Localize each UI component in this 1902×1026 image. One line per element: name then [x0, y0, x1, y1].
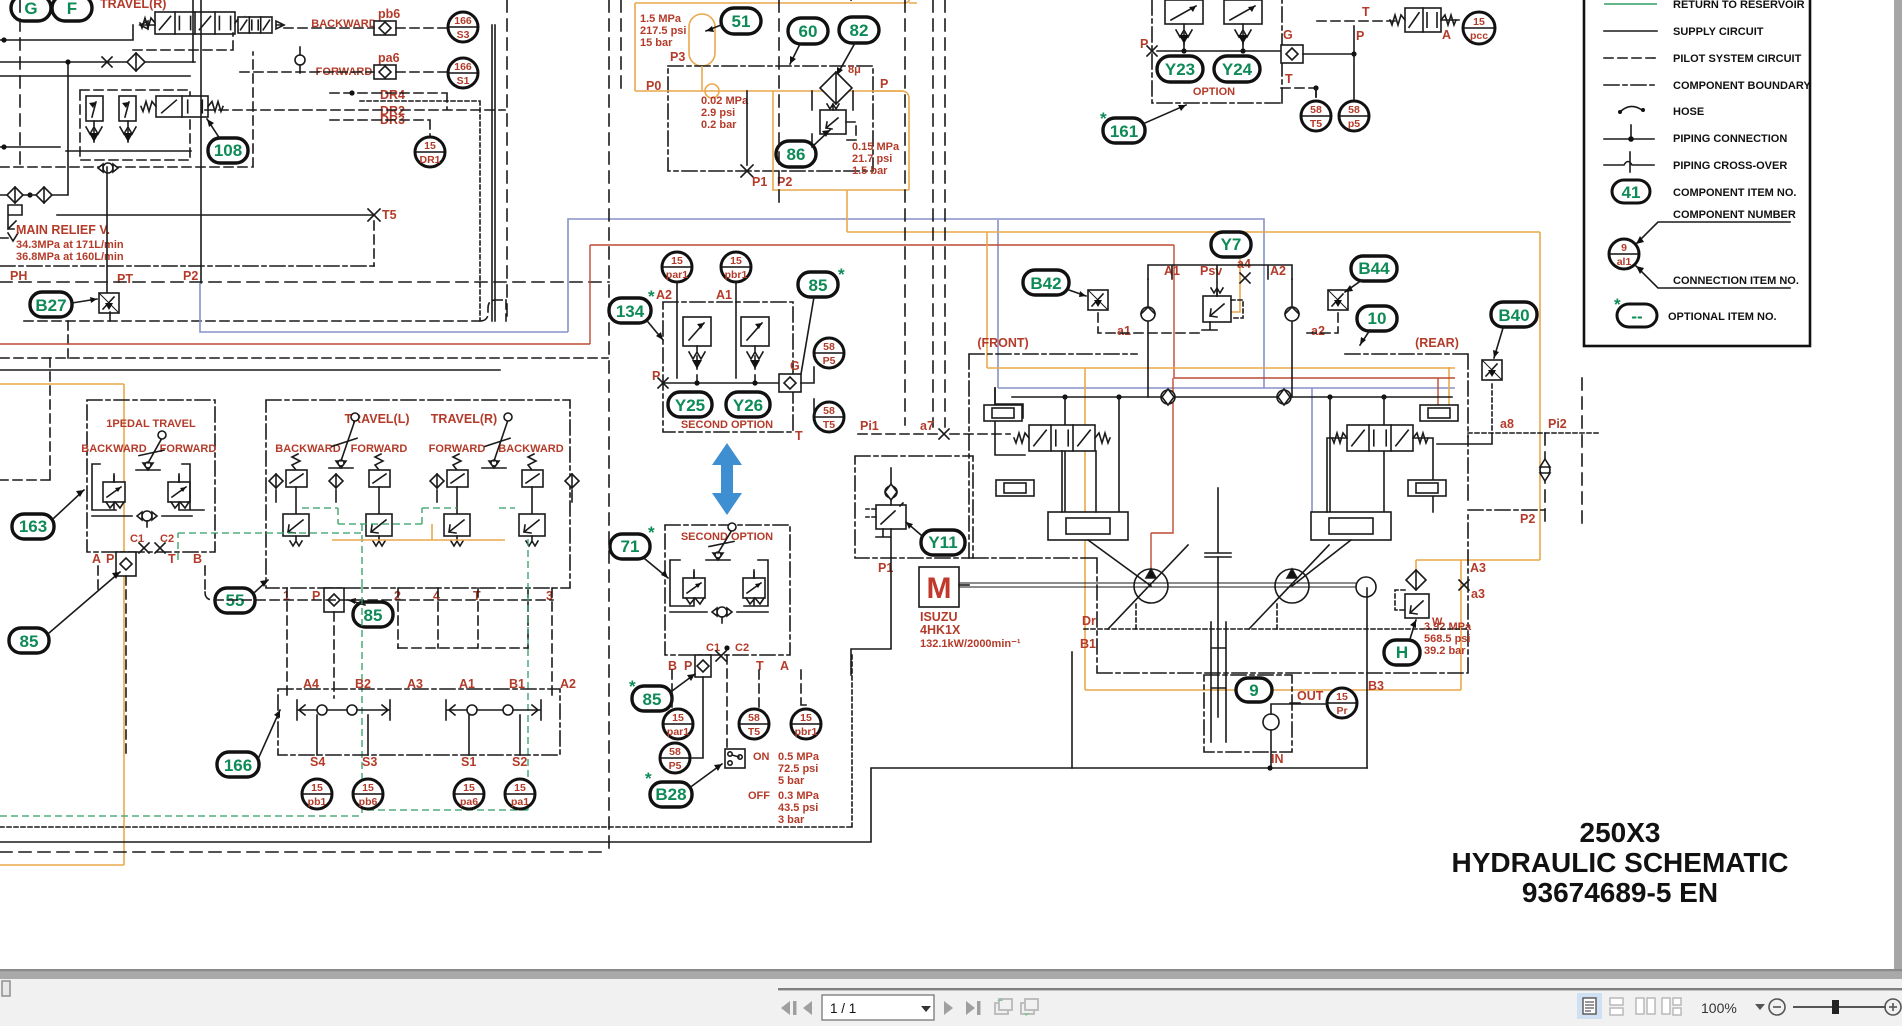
- diamond on P1: [885, 484, 897, 500]
- travel R lever: [482, 413, 512, 468]
- pilot reducer right: [743, 570, 765, 604]
- component item no oval H: [1384, 640, 1420, 665]
- check valve rear: [1277, 389, 1291, 405]
- svg-text:*: *: [648, 523, 655, 542]
- nav last button: [966, 1001, 981, 1015]
- long dashed vertical x609: [608, 0, 610, 855]
- svg-text:0.2 bar: 0.2 bar: [701, 119, 737, 131]
- legend: hose: [1620, 106, 1642, 112]
- svg-text:P: P: [106, 552, 114, 566]
- legend: supply circuit: [1604, 30, 1657, 32]
- component item no oval 9: [1236, 678, 1272, 702]
- solenoid oval Y7: [1211, 232, 1251, 257]
- solenoid B44 symbol: [1328, 290, 1348, 310]
- svg-text:P5: P5: [823, 355, 836, 367]
- connection circle 15/pa6: [454, 779, 484, 809]
- shaft center vertical: [1217, 557, 1219, 717]
- svg-text:93674689-5 EN: 93674689-5 EN: [1522, 877, 1718, 908]
- svg-text:108: 108: [214, 141, 242, 160]
- check ball symbol above FORWARD: [295, 47, 305, 73]
- svg-text:0.5 MPa: 0.5 MPa: [778, 751, 820, 763]
- solenoid valve Y24: [1224, 0, 1262, 44]
- svg-text:1.5 bar: 1.5 bar: [852, 165, 888, 177]
- svg-text:B42: B42: [1030, 274, 1061, 293]
- svg-text:P2: P2: [1520, 512, 1535, 526]
- svg-text:163: 163: [19, 517, 47, 536]
- svg-text:Y23: Y23: [1165, 60, 1195, 79]
- svg-text:B28: B28: [655, 785, 686, 804]
- svg-text:G: G: [790, 359, 800, 373]
- shuttle internals left: [297, 700, 390, 720]
- svg-text:P: P: [652, 369, 660, 383]
- svg-text:15: 15: [1336, 691, 1348, 703]
- svg-text:41: 41: [1622, 183, 1641, 202]
- component item no oval B40: [1491, 302, 1537, 327]
- orange supply wire left: [0, 383, 124, 385]
- svg-text:ON: ON: [753, 751, 770, 763]
- svg-text:P5: P5: [669, 760, 682, 772]
- svg-text:*: *: [1100, 109, 1107, 128]
- component item no oval 51: [721, 8, 761, 34]
- svg-text:al1: al1: [1617, 256, 1632, 268]
- svg-text:PT: PT: [117, 272, 133, 286]
- connection circle 15/Pr: [1327, 688, 1357, 718]
- pa6 restrictor: [374, 65, 396, 79]
- front servo piping: [995, 388, 1096, 512]
- nav first-page button: [781, 1001, 797, 1015]
- svg-text:P: P: [880, 77, 888, 91]
- svg-text:B: B: [193, 552, 202, 566]
- legend: return to reservoir: [1604, 3, 1657, 5]
- Y25 Y26 pilot valves: [683, 317, 711, 369]
- svg-text:F: F: [67, 0, 77, 18]
- component item no oval B44: [1351, 256, 1397, 281]
- svg-text:S3: S3: [457, 29, 470, 41]
- red drop to front pump: [1151, 378, 1173, 569]
- pilot dashed wire: [133, 33, 233, 50]
- svg-text:CONNECTION ITEM NO.: CONNECTION ITEM NO.: [1673, 275, 1799, 287]
- solenoid oval Y26: [726, 392, 770, 417]
- svg-text:85: 85: [809, 276, 828, 295]
- component item no oval 163: [12, 514, 54, 539]
- wire: [0, 25, 133, 40]
- svg-text:SUPPLY CIRCUIT: SUPPLY CIRCUIT: [1673, 26, 1764, 38]
- svg-text:58: 58: [1310, 104, 1322, 116]
- small pilot valve circle-diamond: [98, 163, 118, 173]
- green wire inside travel block: [302, 508, 457, 524]
- zoom slider: [1793, 1006, 1886, 1008]
- 1pedal travel block boundary: [87, 400, 215, 552]
- component item no oval 10: [1357, 306, 1397, 331]
- check valve: [36, 187, 52, 203]
- svg-text:a3: a3: [1471, 587, 1485, 601]
- dashed vertical x621 short: [620, 0, 622, 90]
- svg-text:58: 58: [1348, 104, 1360, 116]
- pilot filter 82: [820, 72, 852, 104]
- legend: component item no 41: [1612, 180, 1650, 203]
- check valve: [7, 187, 23, 203]
- a8 pilot dashes and B40 drop: [1468, 384, 1598, 433]
- travel pilot reducer 2: [366, 454, 392, 546]
- svg-text:a8: a8: [1500, 417, 1514, 431]
- wires below 108: [0, 147, 191, 151]
- svg-text:58: 58: [669, 746, 681, 758]
- P1 supply line: [851, 468, 891, 675]
- svg-text:Psv: Psv: [1200, 264, 1222, 278]
- toolbar background: [0, 979, 1902, 1026]
- svg-text:Pi1: Pi1: [860, 419, 879, 433]
- svg-text:HYDRAULIC SCHEMATIC: HYDRAULIC SCHEMATIC: [1451, 847, 1788, 878]
- svg-text:250X3: 250X3: [1580, 817, 1661, 848]
- black dashed bus y358: [0, 357, 608, 359]
- svg-text:8μ: 8μ: [848, 64, 861, 76]
- blue pilot wire (straight travel): [200, 219, 1455, 388]
- pb6 restrictor: [374, 21, 396, 35]
- dashed verticals x779 x933 x945: [932, 0, 934, 427]
- component item no oval 85: [798, 272, 838, 297]
- zoom in circle: [1885, 999, 1901, 1015]
- svg-text:T5: T5: [823, 419, 835, 431]
- servo pistons: [1048, 512, 1128, 540]
- PT pressure switch line: [107, 167, 110, 321]
- svg-text:B27: B27: [35, 296, 66, 315]
- svg-text:15: 15: [671, 255, 683, 267]
- svg-text:PIPING CROSS-OVER: PIPING CROSS-OVER: [1673, 160, 1787, 172]
- bottom gray band: [0, 971, 1902, 979]
- svg-text:B1: B1: [1080, 637, 1096, 651]
- blue drop to rear pump: [1311, 388, 1313, 518]
- pilot reducer left: [683, 570, 705, 604]
- Y11 block: [855, 456, 973, 558]
- svg-text:OPTION: OPTION: [1193, 86, 1235, 98]
- svg-text:FORWARD: FORWARD: [351, 443, 408, 455]
- svg-text:P1: P1: [752, 175, 767, 189]
- svg-text:Pr: Pr: [1336, 705, 1347, 717]
- svg-text:pb6: pb6: [378, 7, 400, 21]
- svg-text:58: 58: [823, 405, 835, 417]
- pump case drains dashed: [1136, 603, 1277, 629]
- svg-text:COMPONENT NUMBER: COMPONENT NUMBER: [1673, 209, 1796, 221]
- svg-text:HOSE: HOSE: [1673, 106, 1704, 118]
- pilot filter oval85: [695, 655, 711, 677]
- svg-text:2.9 psi: 2.9 psi: [701, 107, 735, 119]
- legend box: [1584, 0, 1810, 346]
- orange wire to A3: [1415, 560, 1417, 569]
- svg-text:10: 10: [1368, 309, 1387, 328]
- page number box: [822, 995, 934, 1020]
- svg-text:3.92 MPa: 3.92 MPa: [1424, 621, 1472, 633]
- svg-text:P3: P3: [670, 50, 685, 64]
- svg-text:A1: A1: [716, 288, 732, 302]
- connection circle 15/par1: [662, 252, 692, 282]
- pumps: [1108, 545, 1188, 629]
- svg-text:Pi2: Pi2: [1548, 417, 1567, 431]
- svg-text:PH: PH: [10, 269, 27, 283]
- svg-text:1.5 MPa: 1.5 MPa: [640, 13, 682, 25]
- nav next button: [944, 1001, 953, 1015]
- svg-text:IN: IN: [1271, 752, 1284, 766]
- svg-text:166: 166: [224, 756, 252, 775]
- long dashed pilot bus y282: [0, 281, 609, 283]
- pilot gear pump: [1356, 577, 1376, 597]
- pedal lever 163: [136, 431, 166, 470]
- svg-text:A2: A2: [656, 288, 672, 302]
- svg-text:T5: T5: [748, 726, 760, 738]
- orange wire inside travel block: [332, 524, 505, 540]
- top manifold wires: [1148, 265, 1292, 296]
- svg-text:15: 15: [730, 255, 742, 267]
- svg-text:B40: B40: [1498, 306, 1529, 325]
- legend: pilot system circuit: [1604, 57, 1657, 59]
- left dashed stubs: [0, 321, 68, 480]
- svg-text:9: 9: [1621, 242, 1627, 254]
- small page corner icon left: [2, 981, 10, 996]
- svg-text:*: *: [838, 265, 845, 284]
- svg-text:ISUZU: ISUZU: [920, 610, 958, 624]
- component item no oval 85 (163): [9, 628, 49, 653]
- travel LR block boundary: [266, 400, 570, 588]
- svg-text:Y11: Y11: [928, 533, 957, 552]
- svg-text:0.15 MPa: 0.15 MPa: [852, 141, 900, 153]
- svg-text:15: 15: [514, 782, 526, 794]
- svg-text:A1: A1: [459, 677, 475, 691]
- wire with check cross: [0, 62, 195, 151]
- svg-text:M: M: [927, 572, 952, 605]
- svg-text:9: 9: [1249, 681, 1258, 700]
- orange Psv feed: [1231, 232, 1240, 312]
- suction circle: [1263, 714, 1279, 730]
- svg-text:4: 4: [433, 589, 440, 603]
- solenoid oval Y25: [668, 392, 712, 417]
- svg-text:C2: C2: [160, 533, 174, 545]
- gray line down from P1: [746, 91, 748, 165]
- svg-text:Dr: Dr: [1082, 614, 1096, 628]
- pilot filter G: [779, 374, 801, 392]
- Pi2 riser and P2 boundary: [1545, 378, 1582, 523]
- component item no oval B42: [1023, 270, 1069, 295]
- pcc valve: [1390, 8, 1456, 32]
- svg-text:15: 15: [1473, 16, 1485, 28]
- component item no oval B28: [650, 782, 692, 807]
- svg-text:161: 161: [1110, 122, 1138, 141]
- bottom orange corner to left: [0, 864, 124, 866]
- supply manifold line y397: [1012, 396, 1452, 398]
- svg-text:TRAVEL(R): TRAVEL(R): [100, 0, 166, 11]
- svg-text:0.3 MPa: 0.3 MPa: [778, 790, 820, 802]
- solenoid B42 symbol: [1088, 290, 1108, 310]
- wires below travel block: [287, 588, 552, 698]
- component item no oval 55: [215, 588, 255, 613]
- connection circle 58/T5 (option): [1301, 101, 1331, 131]
- svg-text:--: --: [1631, 307, 1642, 326]
- svg-text:pb6: pb6: [359, 796, 378, 808]
- svg-text:G: G: [1283, 28, 1293, 42]
- svg-text:SECOND OPTION: SECOND OPTION: [681, 419, 773, 431]
- svg-text:132.1kW/2000min⁻¹: 132.1kW/2000min⁻¹: [920, 638, 1021, 650]
- svg-text:T: T: [1285, 72, 1293, 86]
- svg-text:217.5 psi: 217.5 psi: [640, 25, 686, 37]
- pedal reducer right: [168, 474, 190, 508]
- svg-text:DR4: DR4: [380, 88, 405, 102]
- svg-text:21.7 psi: 21.7 psi: [852, 153, 892, 165]
- connection circle 58/T5: [814, 402, 844, 432]
- main relief valve symbol: [0, 205, 22, 241]
- solenoid oval Y11: [921, 530, 965, 555]
- svg-text:(FRONT): (FRONT): [977, 336, 1028, 350]
- svg-text:MAIN RELIEF V.: MAIN RELIEF V.: [16, 223, 110, 237]
- front pump boundary: [969, 354, 1468, 673]
- svg-text:134: 134: [616, 302, 645, 321]
- svg-text:BACKWARD: BACKWARD: [275, 443, 340, 455]
- svg-text:H: H: [1396, 643, 1408, 662]
- svg-text:T: T: [756, 659, 764, 673]
- vertical long dashed line x 20: [19, 0, 21, 170]
- connection circle 58/P5: [814, 338, 844, 368]
- travel pilot reducer 1: [283, 454, 309, 546]
- svg-text:166: 166: [454, 15, 472, 27]
- svg-text:S1: S1: [461, 755, 476, 769]
- svg-text:T: T: [473, 589, 481, 603]
- connection circle 15/pbr1: [721, 252, 751, 282]
- svg-text:P: P: [1356, 29, 1364, 43]
- svg-text:S3: S3: [362, 755, 377, 769]
- svg-text:15 bar: 15 bar: [640, 37, 673, 49]
- svg-text:pbr1: pbr1: [795, 726, 818, 738]
- svg-text:*: *: [645, 769, 652, 788]
- component item no oval 161: [1103, 118, 1145, 143]
- solenoid reducing valve left: [86, 96, 103, 142]
- second option block 134 boundary: [663, 302, 793, 432]
- PH boundary dash-dot line: [0, 265, 375, 267]
- svg-text:OFF: OFF: [748, 790, 770, 802]
- legend: piping cross-over: [1604, 152, 1654, 172]
- orange circle restrictor: [705, 84, 719, 98]
- solenoid valve block 108 boundary: [80, 90, 190, 160]
- view mode buttons: [1577, 993, 1602, 1019]
- inner boundary rear: [1345, 354, 1468, 437]
- component item no oval 85 (55): [353, 602, 393, 627]
- component item no oval 71: [610, 534, 650, 559]
- orange piping inside block 60: [635, 3, 903, 190]
- long vertical solid line x201: [200, 0, 202, 283]
- svg-text:P: P: [312, 589, 320, 603]
- shuttle valve block 166 boundary: [278, 689, 560, 755]
- svg-text:58: 58: [748, 712, 760, 724]
- svg-text:B3: B3: [1368, 679, 1384, 693]
- svg-text:5 bar: 5 bar: [778, 775, 805, 787]
- travel pilot reducer 3: [444, 454, 470, 546]
- svg-text:pbr1: pbr1: [725, 269, 748, 281]
- svg-text:1PEDAL TRAVEL: 1PEDAL TRAVEL: [106, 418, 196, 430]
- svg-text:100%: 100%: [1701, 1000, 1737, 1016]
- svg-text:S4: S4: [310, 755, 325, 769]
- connection circle 15/pb1: [302, 779, 332, 809]
- connection circle 166/S1: [448, 58, 478, 88]
- accumulator (orange capsule): [689, 14, 715, 66]
- red-brown pilot wire: [0, 245, 1455, 378]
- Psv regulator valve: [1203, 288, 1231, 322]
- svg-text:par1: par1: [666, 269, 688, 281]
- svg-text:a4: a4: [1237, 257, 1251, 271]
- svg-text:A: A: [780, 659, 789, 673]
- svg-text:15: 15: [672, 712, 684, 724]
- pressure switch B28: [725, 749, 745, 768]
- svg-text:PIPING CONNECTION: PIPING CONNECTION: [1673, 133, 1787, 145]
- svg-text:PILOT SYSTEM CIRCUIT: PILOT SYSTEM CIRCUIT: [1673, 53, 1802, 65]
- svg-text:A4: A4: [303, 677, 319, 691]
- svg-text:166: 166: [454, 61, 472, 73]
- green pilot branch from pedal T port: [178, 533, 362, 560]
- travel block side check diamonds: [269, 474, 283, 488]
- wires of option block: [1157, 44, 1282, 51]
- travel L lever: [329, 413, 359, 468]
- svg-text:pb1: pb1: [308, 796, 327, 808]
- legend: component boundary: [1604, 84, 1657, 86]
- shuttle in block 71: [712, 607, 732, 617]
- svg-text:a1: a1: [1117, 324, 1131, 338]
- svg-text:G: G: [24, 0, 37, 18]
- svg-text:B44: B44: [1358, 259, 1390, 278]
- svg-text:a2: a2: [1311, 324, 1325, 338]
- solid rail pair x492/495: [492, 25, 495, 321]
- svg-text:pa1: pa1: [511, 796, 529, 808]
- dashed pilot line to S3: [284, 27, 448, 29]
- blue swap arrow: [712, 443, 742, 515]
- legend: connection circle 9/al1: [1609, 239, 1639, 269]
- svg-text:568.5 psi: 568.5 psi: [1424, 633, 1470, 645]
- orange vertical x124: [123, 384, 125, 865]
- connection circle 58/p5 (option): [1339, 101, 1369, 131]
- drive shaft: [959, 583, 1356, 587]
- second option block 71 boundary: [665, 525, 790, 655]
- svg-text:A: A: [1442, 28, 1451, 42]
- B27 leader arrow: [72, 299, 97, 303]
- svg-text:T: T: [795, 429, 803, 443]
- travel pilot reducer 4: [519, 454, 545, 546]
- svg-text:pa6: pa6: [378, 51, 400, 65]
- servo feed verticals: [1065, 397, 1384, 512]
- M engine box: [919, 567, 959, 607]
- component item no oval B27: [30, 292, 72, 317]
- check valve front: [1161, 389, 1175, 405]
- svg-text:60: 60: [799, 22, 818, 41]
- solenoid reducing valve right: [119, 96, 136, 142]
- 51 leader arrow: [706, 25, 721, 31]
- small actuator symbols top: [984, 405, 1022, 421]
- wires in block 134: [663, 282, 779, 383]
- solenoid oval Y23: [1157, 56, 1203, 82]
- svg-text:TRAVEL(R): TRAVEL(R): [431, 412, 497, 426]
- svg-text:FORWARD: FORWARD: [429, 443, 486, 455]
- svg-text:15: 15: [311, 782, 323, 794]
- svg-text:OPTIONAL ITEM NO.: OPTIONAL ITEM NO.: [1668, 311, 1777, 323]
- orange/red drops to rear actuator: [1448, 367, 1450, 407]
- svg-text:3 bar: 3 bar: [778, 814, 805, 826]
- filter H: [1406, 570, 1426, 590]
- svg-text:S1: S1: [457, 75, 470, 87]
- P1 P2 labels + cross: [741, 165, 753, 177]
- wires below block 71: [692, 677, 703, 758]
- solenoid valve Y23: [1165, 0, 1203, 44]
- svg-text:Y26: Y26: [733, 396, 763, 415]
- svg-text:(REAR): (REAR): [1415, 336, 1459, 350]
- relief 86 symbol: [820, 104, 846, 134]
- svg-text:OUT: OUT: [1297, 689, 1324, 703]
- rear regulator valve: [1332, 425, 1428, 451]
- svg-text:71: 71: [621, 537, 640, 556]
- svg-text:BACKWARD: BACKWARD: [81, 443, 146, 455]
- svg-text:T5: T5: [382, 208, 397, 222]
